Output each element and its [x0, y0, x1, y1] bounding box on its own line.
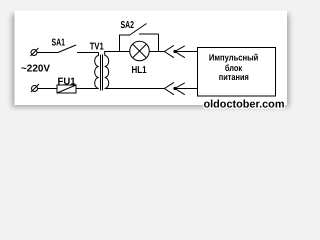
svg-text:oldoctober.com: oldoctober.com: [204, 99, 285, 111]
wire: plug X3 to power-supply box: [175, 51, 198, 53]
node A (SA2 branch tap, left): [120, 51, 130, 53]
svg-text:SA2: SA2: [121, 20, 135, 31]
fuse FU1: [57, 85, 76, 93]
connector X3 plug: [174, 46, 185, 58]
transformer TV1 primary winding: [95, 56, 99, 89]
wire: SA1 to transformer primary top: [98, 53, 100, 56]
svg-text:~220V: ~220V: [21, 64, 50, 75]
wire: SA2 branch right riser: [158, 34, 160, 52]
wire: secondary top to node A: [105, 52, 120, 56]
wire: SA2 branch left riser: [120, 35, 130, 52]
terminal X2 (bottom mains pin): [31, 84, 39, 92]
connector X3 socket: [164, 45, 174, 57]
wire: bottom terminal to FU1: [38, 88, 58, 90]
wire: secondary bottom rail: [105, 88, 165, 90]
connector X4 socket: [164, 82, 174, 94]
wire: FU1 to transformer primary bottom: [76, 88, 99, 90]
transformer TV1 secondary winding: [105, 56, 109, 89]
wire: top terminal to SA1: [37, 52, 58, 54]
svg-text:TV1: TV1: [90, 42, 104, 53]
terminal X1 (top mains pin): [31, 48, 39, 56]
svg-text:HL1: HL1: [132, 65, 147, 76]
switch SA1: [58, 45, 99, 53]
svg-text:FU1: FU1: [58, 77, 76, 88]
wire: plug X4 to power-supply box: [175, 88, 198, 90]
transformer TV1 core: [101, 55, 103, 91]
power supply unit box: [198, 48, 276, 97]
wire: lamp to node B and connector X3: [150, 51, 165, 53]
svg-text:Импульсный: Импульсный: [209, 52, 259, 62]
connector X4 plug: [174, 83, 185, 95]
lamp HL1: [130, 41, 150, 61]
switch SA2: [129, 24, 159, 36]
svg-text:питания: питания: [219, 72, 249, 82]
svg-text:SA1: SA1: [52, 38, 66, 49]
white schematic panel: [15, 11, 288, 106]
panel shadow: [12, 14, 289, 107]
